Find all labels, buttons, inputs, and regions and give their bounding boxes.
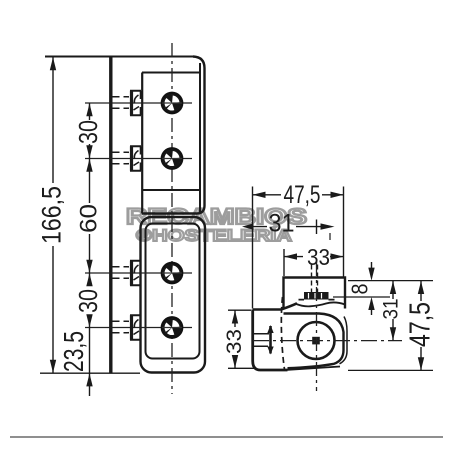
svg-text:33: 33 — [307, 244, 330, 270]
svg-text:33: 33 — [223, 329, 246, 354]
svg-text:166,5: 166,5 — [37, 186, 67, 244]
svg-text:8: 8 — [347, 284, 373, 295]
svg-text:31: 31 — [380, 299, 403, 320]
svg-text:31: 31 — [269, 210, 295, 238]
svg-text:47,5: 47,5 — [405, 302, 437, 347]
svg-text:30: 30 — [73, 120, 103, 144]
svg-text:47,5: 47,5 — [284, 181, 321, 209]
svg-text:60: 60 — [76, 204, 103, 233]
svg-text:23,5: 23,5 — [58, 331, 89, 372]
svg-text:30: 30 — [73, 289, 103, 313]
